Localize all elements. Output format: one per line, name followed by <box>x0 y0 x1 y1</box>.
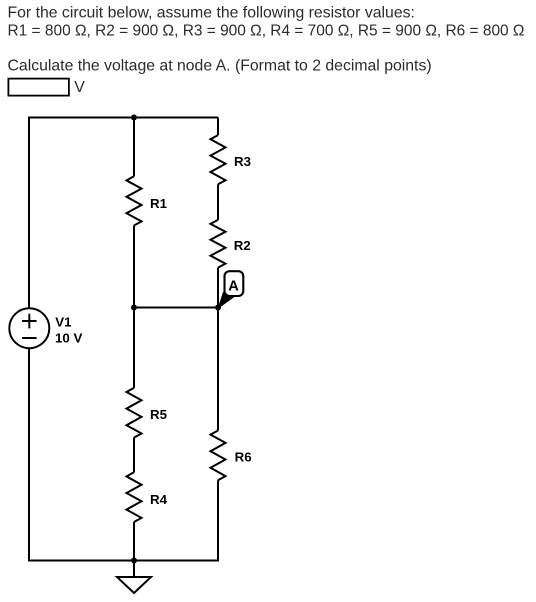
svg-text:R2: R2 <box>234 238 251 253</box>
svg-text:R1: R1 <box>150 196 168 211</box>
svg-text:R1 = 800 Ω, R2 = 900 Ω, R3 = 9: R1 = 800 Ω, R2 = 900 Ω, R3 = 900 Ω, R4 =… <box>8 22 525 39</box>
svg-text:V1: V1 <box>55 315 72 330</box>
svg-text:R3: R3 <box>234 154 251 169</box>
svg-text:10 V: 10 V <box>55 331 82 346</box>
svg-text:R4: R4 <box>150 492 168 507</box>
svg-text:A: A <box>228 278 239 294</box>
svg-text:R5: R5 <box>150 407 168 422</box>
svg-text:For the circuit below, assume: For the circuit below, assume the follow… <box>8 5 415 22</box>
svg-text:R6: R6 <box>235 449 252 464</box>
svg-text:Calculate the voltage at node: Calculate the voltage at node A. (Format… <box>8 58 432 75</box>
svg-text:V: V <box>74 79 85 96</box>
